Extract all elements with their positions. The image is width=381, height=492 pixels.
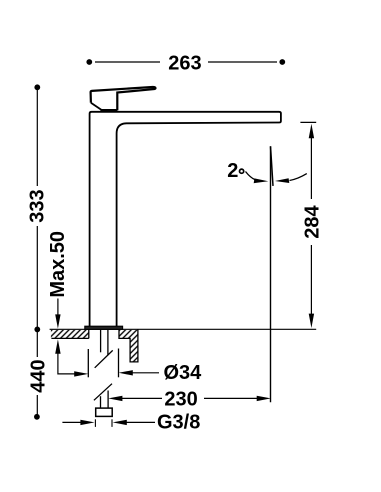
deck top surface line (extends left for Max.50 and right for 284 extension) — [50, 328, 317, 330]
countertop deck left hatched section — [51, 329, 89, 338]
svg-text:Ø34: Ø34 — [164, 362, 203, 384]
svg-text:2: 2 — [227, 160, 238, 182]
countertop deck right hatched L-section — [119, 329, 138, 362]
dimension 230 — [108, 389, 271, 411]
svg-text:333: 333 — [26, 189, 48, 222]
2 degree annotation — [227, 160, 307, 183]
shank lower section — [100, 396, 102, 408]
left arc arrow — [246, 172, 257, 181]
handle lever outline — [91, 87, 156, 110]
break line upper diagonal — [95, 350, 113, 367]
vertical stream reference line down to 230 dimension — [270, 146, 272, 402]
svg-text:230: 230 — [164, 389, 197, 411]
svg-text:284: 284 — [301, 204, 323, 238]
handle base bottom diagonal — [91, 103, 102, 111]
dimension 333 / 440 shared vertical line — [26, 84, 49, 419]
shank upper section below deck — [100, 330, 102, 353]
handle base bottom thick shadow line — [100, 109, 117, 112]
svg-text:440: 440 — [28, 359, 50, 392]
svg-text:G3/8: G3/8 — [157, 412, 200, 434]
dimension G3/8 — [62, 412, 200, 434]
break line lower diagonal — [94, 384, 112, 401]
svg-text:Max.50: Max.50 — [47, 231, 69, 298]
svg-text:263: 263 — [168, 53, 201, 75]
dimension 263 line — [86, 53, 285, 75]
faucet body and spout outline — [90, 112, 281, 326]
dimension Max.50 — [47, 231, 78, 374]
base flange — [85, 326, 123, 329]
dimension Ø34 — [74, 349, 202, 385]
right arc arrow — [290, 174, 307, 181]
dimension 284 — [300, 122, 323, 328]
G3/8 threaded end block — [96, 408, 113, 416]
2 degree tilted stream line — [271, 146, 274, 186]
